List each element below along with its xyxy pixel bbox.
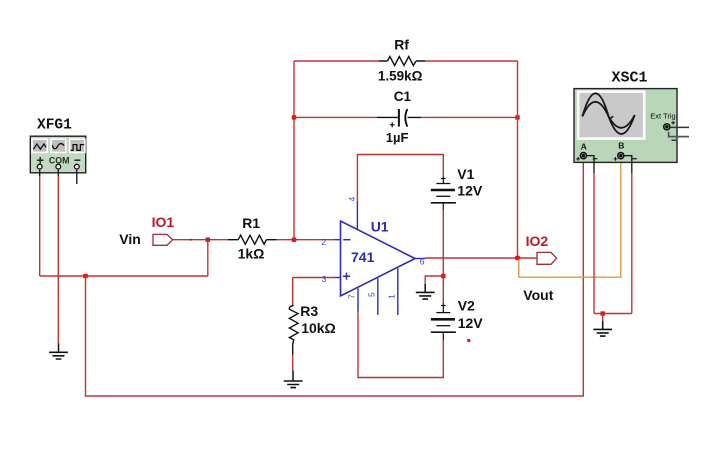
svg-text:7: 7 (346, 294, 356, 299)
svg-text:A: A (581, 142, 587, 152)
junction inverting node (292, 238, 296, 242)
wire V1 to supply mid junction (442, 210, 444, 276)
svg-text:XFG1: XFG1 (37, 118, 72, 134)
wire output pin 6 (415, 257, 537, 260)
svg-text:6: 6 (420, 257, 425, 267)
wire junction to ground (602, 314, 604, 322)
resistor R1 (228, 235, 277, 244)
svg-text:C1: C1 (394, 89, 412, 104)
op-amp U1 triangle (341, 221, 416, 296)
svg-text:3: 3 (322, 274, 327, 284)
wire bottom rail to oscilloscope A+ (86, 162, 584, 396)
svg-text:XSC1: XSC1 (612, 70, 648, 87)
wire top rail (Rf row) (294, 60, 518, 62)
svg-text:12V: 12V (457, 182, 483, 198)
ground (R3) (284, 371, 303, 388)
wire right rail down to output (517, 61, 519, 258)
wire Ext Trig + stub (670, 126, 689, 128)
pin 5 stub (377, 278, 379, 315)
connector IO2 (537, 252, 557, 264)
svg-text:10kΩ: 10kΩ (301, 320, 336, 336)
wire Ext Trig - stub (669, 132, 689, 137)
wire IO1 to R1 (173, 239, 228, 241)
wire V2 bottom loop to pin 7 (358, 288, 443, 377)
svg-text:U1: U1 (371, 219, 389, 235)
svg-text:1: 1 (386, 294, 396, 299)
svg-text:5: 5 (366, 292, 376, 297)
svg-text:V2: V2 (458, 298, 475, 314)
svg-text:4: 4 (347, 197, 357, 202)
wire feedback left rail (293, 61, 295, 240)
wire scope B- bracket down (624, 156, 632, 314)
resistor R3 (289, 305, 298, 370)
wire XFG1 - terminal stub (76, 169, 78, 184)
svg-text:B: B (618, 141, 624, 151)
connector IO1 (153, 234, 173, 245)
wire scope ground rail (594, 313, 632, 315)
svg-text:2: 2 (321, 237, 326, 247)
svg-text:Vin: Vin (119, 231, 141, 247)
wire scope A- bracket down (587, 156, 594, 314)
svg-text:1µF: 1µF (386, 130, 409, 145)
junction C1 left (292, 115, 296, 119)
junction scope ground (601, 311, 605, 315)
wire supply mid to ground branch (425, 276, 443, 284)
svg-text:1.59kΩ: 1.59kΩ (378, 69, 423, 84)
svg-text:R1: R1 (242, 215, 260, 231)
wire C1 row (294, 116, 518, 118)
svg-text:IO2: IO2 (526, 233, 549, 249)
pin 1 stub (397, 268, 399, 315)
wire XFG1 COM terminal down (57, 169, 59, 343)
svg-text:12V: 12V (458, 315, 484, 331)
ground (supply mid) (416, 284, 435, 299)
wire orange output to scope B+ (519, 163, 621, 278)
svg-text:Ext Trig: Ext Trig (650, 111, 675, 120)
stray red dot (467, 339, 470, 342)
ground (scope) (593, 321, 612, 336)
wire Vin node drop to + feed (207, 240, 209, 276)
wire R1 to op-amp pin 2 (277, 239, 341, 241)
ground (XFG1 COM) (49, 344, 68, 360)
junction C1 right (515, 115, 519, 119)
resistor Rf (379, 57, 425, 66)
function generator XFG1 body (30, 136, 85, 173)
svg-text:R3: R3 (300, 303, 318, 319)
svg-text:V1: V1 (457, 166, 474, 182)
capacitor C1 (377, 109, 421, 127)
svg-text:IO1: IO1 (152, 214, 175, 230)
wire pin 4 to V+ rail (357, 155, 443, 231)
svg-text:Rf: Rf (394, 37, 409, 53)
svg-text:Vout: Vout (523, 287, 553, 303)
junction Vin node (206, 238, 210, 242)
svg-text:1kΩ: 1kΩ (238, 246, 265, 262)
svg-text:741: 741 (351, 249, 375, 265)
battery V1 (431, 177, 456, 211)
oscilloscope XSC1 body (574, 89, 677, 163)
wire op-amp pin 3 row from R3 corner (293, 278, 341, 306)
wire XFG1 + to Vin node (horizontal) (40, 275, 208, 277)
wire XFG1 + terminal down (39, 169, 41, 276)
battery V2 (431, 276, 456, 340)
junction output node (515, 256, 519, 260)
junction bottom-rail branch (83, 274, 87, 278)
junction supply mid (441, 274, 445, 278)
